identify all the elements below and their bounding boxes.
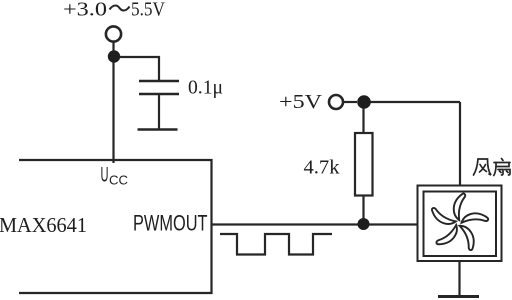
svg-text:CC: CC — [109, 173, 128, 188]
svg-text:+5V: +5V — [279, 91, 322, 113]
svg-text:5.5V: 5.5V — [131, 0, 165, 21]
svg-text:0.1μ: 0.1μ — [188, 77, 223, 99]
svg-text:PWMOUT: PWMOUT — [133, 211, 208, 236]
svg-text:MAX6641: MAX6641 — [0, 213, 87, 237]
svg-text:+3.0: +3.0 — [63, 0, 107, 21]
svg-text:4.7k: 4.7k — [304, 157, 340, 179]
svg-text:U: U — [101, 164, 109, 187]
